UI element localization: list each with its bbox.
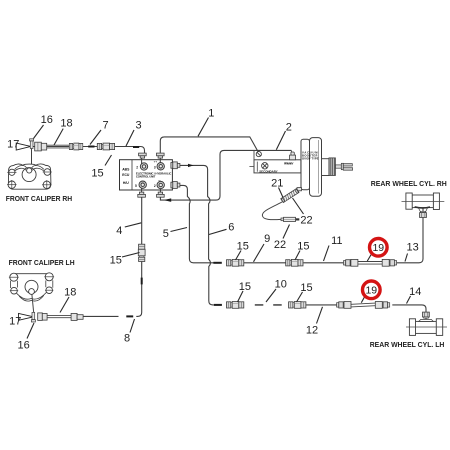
svg-text:REAR WHEEL CYL. RH: REAR WHEEL CYL. RH: [371, 179, 447, 188]
svg-text:2: 2: [154, 184, 156, 188]
svg-text:1: 1: [208, 108, 214, 120]
svg-text:++: ++: [154, 160, 158, 164]
svg-text:15: 15: [237, 240, 249, 252]
svg-text:SECONDARY: SECONDARY: [259, 170, 278, 174]
svg-text:ABS: ABS: [122, 167, 130, 171]
svg-text:15: 15: [91, 168, 103, 180]
svg-text:9: 9: [264, 233, 270, 245]
svg-text:17: 17: [9, 315, 21, 327]
svg-text:--: --: [158, 179, 160, 183]
svg-text:17: 17: [7, 139, 19, 151]
svg-text:11: 11: [331, 235, 342, 247]
svg-text:16: 16: [17, 340, 29, 352]
svg-text:14: 14: [409, 286, 421, 298]
svg-text:6: 6: [228, 221, 234, 233]
svg-text:REAR WHEEL CYL. LH: REAR WHEEL CYL. LH: [370, 340, 445, 349]
svg-text:3: 3: [136, 120, 142, 132]
svg-text:5: 5: [163, 228, 169, 240]
svg-text:10: 10: [275, 278, 287, 290]
svg-text:18: 18: [64, 287, 76, 299]
svg-text:21: 21: [271, 177, 283, 189]
svg-text:15: 15: [110, 254, 122, 266]
svg-text:16: 16: [41, 114, 53, 126]
svg-text:15: 15: [297, 240, 309, 252]
svg-text:5: 5: [135, 184, 137, 188]
svg-text:H/U: H/U: [123, 181, 129, 185]
svg-text:2: 2: [286, 122, 292, 134]
svg-text:8: 8: [124, 332, 130, 344]
svg-text:7: 7: [102, 120, 108, 132]
svg-text:22: 22: [300, 215, 312, 227]
svg-text:PRIMARY: PRIMARY: [284, 161, 294, 165]
svg-text:15: 15: [239, 281, 251, 293]
svg-text:CONTROL UNIT: CONTROL UNIT: [136, 175, 156, 179]
svg-text:2: 2: [136, 165, 138, 169]
svg-text:22: 22: [274, 239, 286, 251]
svg-text:19: 19: [372, 242, 384, 254]
svg-text:15: 15: [300, 282, 312, 294]
svg-text:OV/OV TYPE: OV/OV TYPE: [302, 156, 319, 160]
svg-text:FRONT CALIPER LH: FRONT CALIPER LH: [9, 258, 75, 267]
svg-text:13: 13: [406, 241, 418, 253]
svg-text:ECU: ECU: [122, 173, 130, 177]
svg-text:4: 4: [116, 225, 122, 237]
svg-text:FRONT CALIPER RH: FRONT CALIPER RH: [6, 194, 73, 203]
svg-text:3: 3: [154, 165, 156, 169]
svg-text:18: 18: [60, 118, 72, 130]
svg-text:19: 19: [365, 285, 377, 297]
svg-text:12: 12: [306, 324, 318, 336]
